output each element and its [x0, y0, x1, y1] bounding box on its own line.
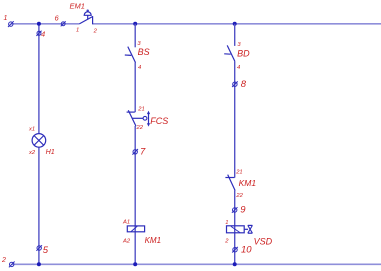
- wire branch 2 upper (to BS): [134, 24, 136, 48]
- node 7: [132, 147, 146, 158]
- FCS roller link: [132, 117, 143, 119]
- svg-text:1: 1: [225, 220, 228, 226]
- junction top of BS branch: [133, 22, 137, 26]
- node 6: [55, 13, 66, 26]
- wire top rail left segment: [11, 23, 80, 25]
- svg-text:21: 21: [235, 169, 242, 175]
- node 8: [232, 79, 247, 90]
- svg-text:H1: H1: [46, 147, 55, 156]
- svg-text:4: 4: [138, 65, 141, 71]
- svg-text:21: 21: [137, 107, 144, 113]
- svg-text:9: 9: [240, 205, 246, 216]
- wire branch 3 upper (to BD): [234, 24, 236, 46]
- coil KM1 diagonal: [131, 226, 137, 232]
- EM1 fixed bar pin2: [92, 16, 94, 24]
- svg-text:x2: x2: [28, 150, 36, 156]
- svg-text:1: 1: [4, 15, 8, 22]
- junction top of lamp branch: [37, 22, 41, 26]
- terminal 2: [1, 257, 15, 267]
- svg-text:BS: BS: [138, 47, 150, 57]
- wire branch 3 between BD and KM1 contact: [234, 61, 236, 177]
- contact KM1 (NC auxiliary contact): [225, 169, 256, 199]
- wire top rail right segment: [93, 23, 381, 25]
- EM1 blade: [79, 16, 93, 24]
- BD tick: [224, 53, 231, 55]
- FCS actuator bar: [148, 113, 150, 126]
- node 5: [36, 245, 48, 256]
- svg-text:A1: A1: [122, 220, 130, 226]
- switch BS (NC contact): [125, 41, 150, 71]
- EM1 mushroom cap: [84, 12, 91, 15]
- wire branch 3 lower (KM1 contact to bottom rail): [234, 190, 236, 264]
- junction top of BD branch: [233, 22, 237, 26]
- svg-text:KM1: KM1: [145, 236, 161, 245]
- svg-text:EM1: EM1: [70, 2, 85, 11]
- coil KM1: [122, 220, 161, 246]
- EM1 stem: [87, 15, 89, 19]
- node 4: [36, 29, 45, 38]
- svg-text:7: 7: [140, 147, 146, 158]
- contact KM1 tick: [225, 177, 234, 179]
- svg-text:8: 8: [241, 79, 247, 90]
- junction bottom of lamp branch: [37, 262, 41, 266]
- BS blade: [128, 47, 136, 63]
- wire branch 1 (lamp branch): [38, 24, 40, 264]
- FCS blade: [128, 110, 136, 126]
- wire branch 2 between BS and FCS: [134, 63, 136, 113]
- terminal 1: [4, 15, 14, 27]
- svg-text:1: 1: [76, 27, 79, 33]
- svg-text:VSD: VSD: [254, 236, 273, 246]
- junction bottom of KM1 coil branch: [133, 262, 137, 266]
- svg-text:FCS: FCS: [150, 116, 168, 126]
- svg-text:10: 10: [241, 244, 252, 255]
- junction bottom of VSD branch: [233, 262, 237, 266]
- svg-text:BD: BD: [237, 49, 250, 59]
- BD blade: [227, 45, 235, 61]
- BS tick: [125, 54, 132, 56]
- svg-text:KM1: KM1: [239, 178, 257, 188]
- switch BD (NC contact): [224, 42, 250, 71]
- VSD link to valve: [244, 228, 248, 230]
- node 10: [232, 244, 252, 255]
- VSD valve hourglass: [248, 224, 253, 226]
- svg-text:22: 22: [136, 125, 144, 131]
- pushbutton EM1 (emergency mushroom head, NC): [70, 2, 98, 35]
- lamp H1 cross: [34, 136, 44, 146]
- solenoid valve VSD: [224, 220, 272, 246]
- svg-text:4: 4: [237, 65, 240, 71]
- wire branch 2 lower (FCS to bottom rail): [134, 126, 136, 264]
- node 9: [232, 205, 246, 216]
- svg-text:x1: x1: [28, 126, 35, 132]
- FCS tick: [127, 111, 135, 113]
- lamp H1: [28, 126, 55, 156]
- switch FCS (foot switch, NC contact with roller): [127, 107, 169, 132]
- wire bottom rail: [12, 263, 381, 265]
- contact KM1 blade: [228, 175, 235, 191]
- VSD diagonal: [231, 226, 240, 232]
- svg-text:22: 22: [235, 193, 243, 199]
- svg-text:2: 2: [1, 257, 6, 264]
- FCS roller circle: [143, 116, 147, 120]
- svg-text:4: 4: [41, 29, 45, 38]
- svg-text:5: 5: [43, 245, 49, 256]
- svg-text:A2: A2: [122, 239, 131, 245]
